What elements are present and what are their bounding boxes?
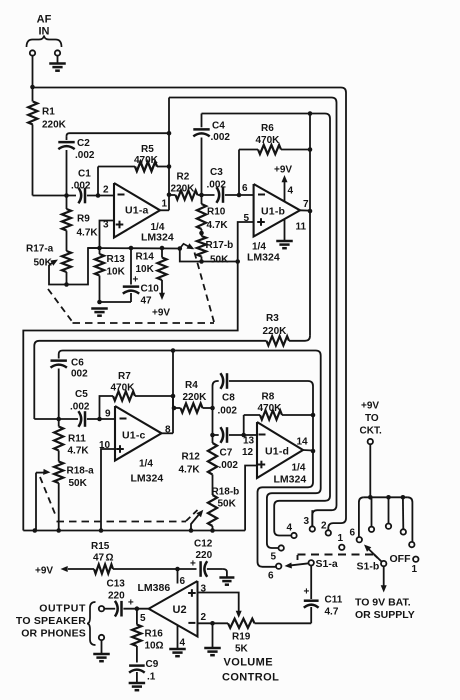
svg-text:C4: C4 bbox=[212, 121, 225, 132]
svg-text:R10: R10 bbox=[207, 207, 226, 218]
svg-text:.1: .1 bbox=[147, 672, 156, 683]
svg-text:2: 2 bbox=[201, 612, 207, 623]
svg-text:+9V: +9V bbox=[152, 308, 170, 319]
svg-text:.002: .002 bbox=[219, 460, 239, 471]
svg-text:2: 2 bbox=[103, 185, 109, 196]
svg-text:R18-a: R18-a bbox=[67, 466, 95, 477]
svg-text:6: 6 bbox=[350, 528, 356, 539]
svg-text:10: 10 bbox=[145, 641, 157, 652]
svg-text:R12: R12 bbox=[182, 452, 201, 463]
svg-text:12: 12 bbox=[242, 447, 254, 458]
svg-text:U2: U2 bbox=[173, 604, 187, 616]
svg-text:5: 5 bbox=[271, 552, 277, 563]
svg-text:R5: R5 bbox=[141, 144, 154, 155]
svg-text:+: + bbox=[304, 587, 310, 598]
svg-text:Ω: Ω bbox=[106, 553, 114, 564]
svg-text:U1-c: U1-c bbox=[122, 430, 146, 442]
svg-text:4.7K: 4.7K bbox=[68, 446, 90, 457]
svg-text:470K: 470K bbox=[258, 403, 283, 414]
svg-text:C3: C3 bbox=[210, 167, 223, 178]
svg-text:R19: R19 bbox=[232, 632, 251, 643]
svg-text:C13: C13 bbox=[107, 579, 126, 590]
svg-text:CONTROL: CONTROL bbox=[222, 672, 279, 684]
svg-text:R18-b: R18-b bbox=[212, 487, 240, 498]
svg-text:C12: C12 bbox=[194, 539, 213, 550]
svg-text:R8: R8 bbox=[262, 392, 275, 403]
svg-text:TO: TO bbox=[365, 413, 379, 424]
svg-text:50K: 50K bbox=[218, 499, 237, 510]
svg-text:8: 8 bbox=[165, 425, 171, 436]
svg-text:10K: 10K bbox=[107, 267, 126, 278]
svg-text:R15: R15 bbox=[91, 541, 110, 552]
svg-text:S1-a: S1-a bbox=[316, 558, 338, 570]
svg-text:C6: C6 bbox=[71, 358, 84, 369]
svg-text:4.7K: 4.7K bbox=[179, 465, 201, 476]
svg-text:LM386: LM386 bbox=[138, 582, 171, 594]
svg-text:002: 002 bbox=[71, 369, 88, 380]
svg-text:R14: R14 bbox=[136, 252, 155, 263]
svg-text:.002: .002 bbox=[75, 150, 95, 161]
svg-text:R17-a: R17-a bbox=[26, 244, 54, 255]
svg-text:4.7: 4.7 bbox=[325, 607, 339, 618]
svg-text:3: 3 bbox=[304, 516, 310, 527]
svg-text:1: 1 bbox=[162, 199, 168, 210]
svg-text:1/4: 1/4 bbox=[292, 463, 306, 474]
svg-text:R1: R1 bbox=[42, 107, 55, 118]
svg-text:.002: .002 bbox=[207, 179, 227, 190]
svg-text:6: 6 bbox=[242, 183, 248, 194]
svg-text:.002: .002 bbox=[218, 406, 238, 417]
svg-text:R7: R7 bbox=[118, 371, 131, 382]
svg-text:220K: 220K bbox=[183, 392, 208, 403]
svg-text:10K: 10K bbox=[136, 264, 155, 275]
svg-text:R4: R4 bbox=[185, 380, 198, 391]
svg-text:Ω: Ω bbox=[156, 641, 164, 652]
svg-text:4.7K: 4.7K bbox=[77, 228, 99, 239]
svg-text:5K: 5K bbox=[235, 644, 249, 655]
svg-text:C1: C1 bbox=[78, 169, 91, 180]
svg-text:R2: R2 bbox=[177, 172, 190, 183]
svg-text:C7: C7 bbox=[220, 448, 233, 459]
svg-text:R16: R16 bbox=[145, 629, 164, 640]
svg-text:4: 4 bbox=[180, 638, 186, 649]
svg-text:C5: C5 bbox=[75, 389, 88, 400]
svg-text:C8: C8 bbox=[222, 393, 235, 404]
svg-text:C2: C2 bbox=[77, 138, 90, 149]
svg-text:.002: .002 bbox=[211, 132, 231, 143]
svg-text:R17-b: R17-b bbox=[206, 240, 234, 251]
svg-text:.002: .002 bbox=[70, 402, 90, 413]
svg-text:R3: R3 bbox=[266, 313, 279, 324]
svg-text:47: 47 bbox=[141, 296, 153, 307]
svg-text:C11: C11 bbox=[325, 595, 343, 606]
svg-text:VOLUME: VOLUME bbox=[224, 657, 273, 669]
svg-text:LM324: LM324 bbox=[247, 252, 280, 264]
svg-text:470K: 470K bbox=[256, 135, 281, 146]
svg-text:5: 5 bbox=[140, 613, 146, 624]
svg-text:TO 9V BAT.: TO 9V BAT. bbox=[355, 597, 411, 609]
svg-text:C9: C9 bbox=[146, 659, 159, 670]
svg-text:47: 47 bbox=[93, 553, 105, 564]
svg-text:LM324: LM324 bbox=[274, 474, 307, 486]
svg-text:50K: 50K bbox=[210, 255, 229, 266]
svg-text:1/4: 1/4 bbox=[139, 459, 153, 470]
svg-text:+9V: +9V bbox=[361, 401, 379, 412]
svg-text:1: 1 bbox=[412, 564, 418, 575]
svg-text:6: 6 bbox=[180, 576, 186, 587]
svg-text:OR SUPPLY: OR SUPPLY bbox=[355, 609, 415, 621]
svg-text:220K: 220K bbox=[42, 120, 67, 131]
svg-text:AF: AF bbox=[37, 14, 52, 26]
svg-text:LM324: LM324 bbox=[141, 232, 174, 244]
svg-text:R11: R11 bbox=[68, 434, 86, 445]
svg-text:220: 220 bbox=[108, 591, 125, 602]
svg-text:220K: 220K bbox=[171, 183, 196, 194]
svg-text:R6: R6 bbox=[261, 123, 274, 134]
svg-text:+9V: +9V bbox=[35, 566, 53, 577]
svg-text:R13: R13 bbox=[107, 254, 126, 265]
svg-text:220: 220 bbox=[196, 550, 213, 561]
svg-text:2: 2 bbox=[321, 521, 327, 532]
svg-text:S1-b: S1-b bbox=[357, 561, 380, 573]
svg-text:470K: 470K bbox=[111, 383, 136, 394]
svg-text:13: 13 bbox=[243, 436, 255, 447]
svg-text:4.7K: 4.7K bbox=[207, 220, 229, 231]
svg-text:U1-b: U1-b bbox=[261, 206, 285, 218]
svg-text:U1-a: U1-a bbox=[125, 205, 149, 217]
svg-text:TO SPEAKER: TO SPEAKER bbox=[16, 615, 86, 627]
svg-text:.002: .002 bbox=[71, 181, 91, 192]
svg-text:U1-d: U1-d bbox=[265, 446, 289, 458]
svg-text:4: 4 bbox=[287, 523, 293, 534]
svg-text:+: + bbox=[133, 275, 139, 286]
svg-text:CKT.: CKT. bbox=[360, 426, 382, 437]
svg-text:OR PHONES: OR PHONES bbox=[21, 628, 86, 640]
svg-text:7: 7 bbox=[303, 199, 309, 210]
svg-text:50K: 50K bbox=[69, 478, 88, 489]
svg-text:C10: C10 bbox=[141, 284, 160, 295]
svg-text:R9: R9 bbox=[77, 214, 90, 225]
svg-text:6: 6 bbox=[268, 571, 274, 582]
svg-text:OFF: OFF bbox=[390, 553, 412, 565]
svg-text:14: 14 bbox=[297, 437, 309, 448]
svg-text:9: 9 bbox=[105, 409, 111, 420]
svg-text:+: + bbox=[128, 598, 134, 609]
svg-text:220K: 220K bbox=[263, 326, 288, 337]
svg-text:LM324: LM324 bbox=[131, 473, 164, 485]
svg-text:4: 4 bbox=[288, 186, 294, 197]
svg-text:+9V: +9V bbox=[274, 165, 292, 176]
svg-text:1: 1 bbox=[338, 533, 344, 544]
svg-text:11: 11 bbox=[296, 222, 307, 233]
svg-text:OUTPUT: OUTPUT bbox=[39, 603, 86, 615]
